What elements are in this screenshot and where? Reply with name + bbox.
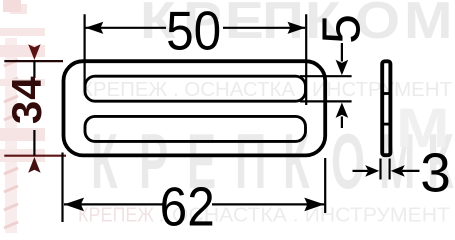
dim 50 line left segment: [86, 27, 167, 29]
dim 5 extension line upper: [300, 75, 352, 77]
watermark big row 1 КРЕПКОМ: [140, 0, 452, 49]
svg-text:62: 62: [160, 177, 215, 233]
svg-text:3: 3: [420, 142, 451, 204]
watermark big row 2 КРЕПКОМ: [91, 119, 454, 205]
dim 3 extension line left: [379, 159, 381, 180]
dim 5 line upper tail: [341, 43, 343, 62]
dim 50 arrow right: [288, 22, 306, 34]
dim 5 line lower tail: [341, 117, 343, 129]
dim 34 arrow top maroon: [28, 44, 40, 60]
red watermark screw shaft left edge: [4, 38, 18, 233]
svg-text:КРЕПЕЖ .: КРЕПЕЖ .: [78, 204, 164, 227]
side view inner tick upper: [384, 92, 390, 95]
dim 5 arrow upper: [336, 60, 349, 75]
dim 50 line right segment: [223, 27, 305, 29]
red watermark screw head top-left: [0, 0, 45, 162]
dim 50 extension line left: [83, 14, 85, 91]
dim 5 arrow lower: [336, 103, 349, 118]
dim 3 arrow right: [391, 165, 405, 177]
side view outline: [382, 61, 390, 155]
dim 50 extension line right: [305, 14, 307, 105]
side view inner tick lower: [384, 123, 390, 126]
dim 62 extension line left: [61, 153, 63, 223]
svg-text:34: 34: [3, 75, 50, 124]
dim 62 line left segment: [64, 203, 163, 205]
dim 50 arrow left: [85, 22, 103, 34]
dim 62 extension line right: [324, 158, 326, 213]
dim 34 arrow bottom maroon: [28, 157, 40, 173]
dim 62 line right segment: [212, 203, 324, 205]
slot 1 upper: [85, 76, 306, 101]
dim 5 extension line lower: [300, 100, 352, 102]
svg-text:КРЕПЕЖ . ОСНАСТКА . ИНСТРУМЕНТ: КРЕПЕЖ . ОСНАСТКА . ИНСТРУМЕНТ: [81, 78, 452, 101]
slot 2 lower: [85, 116, 306, 141]
watermark stray М glyph: [396, 96, 450, 159]
dim 34 extension line top: [4, 60, 63, 62]
front view outer outline of buckle: [64, 61, 326, 155]
dim 3 arrow left: [365, 165, 379, 177]
dim 62 arrow right: [304, 198, 324, 212]
svg-text:5: 5: [312, 14, 372, 44]
dim 3 right tail: [402, 170, 420, 172]
dim 3 left tail: [353, 170, 369, 172]
svg-text:50: 50: [166, 1, 221, 62]
dim 34 extension line bottom maroon: [4, 155, 66, 157]
dim 62 arrow left: [64, 198, 84, 212]
dim 3 extension line right: [389, 159, 391, 180]
dim 34 line lower segment: [33, 130, 35, 156]
dim 34 line upper segment: [33, 61, 35, 78]
